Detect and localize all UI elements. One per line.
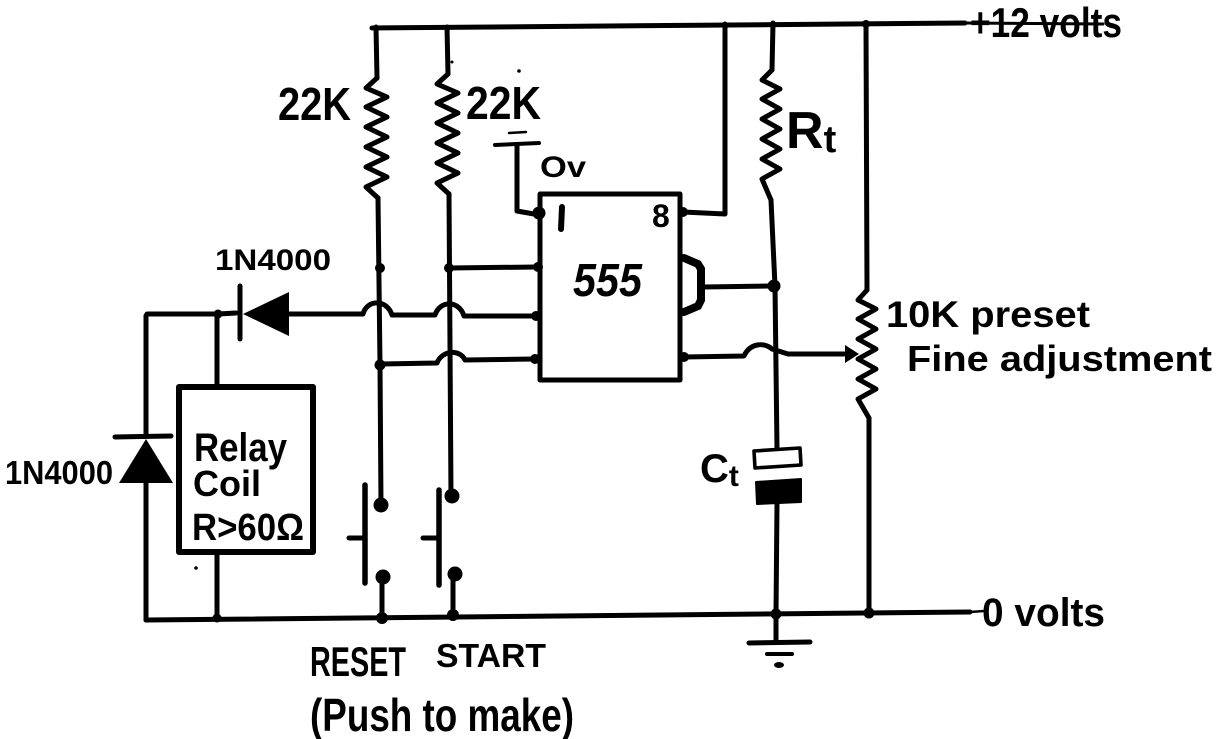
svg-text:Rt: Rt [786, 102, 837, 161]
svg-text:RESET: RESET [310, 638, 406, 685]
svg-text:+12 volts: +12 volts [970, 0, 1122, 46]
svg-text:START: START [436, 637, 546, 674]
svg-text:Ov: Ov [540, 151, 586, 184]
svg-text:10K preset: 10K preset [886, 294, 1090, 335]
svg-text:R>60Ω: R>60Ω [192, 507, 304, 549]
svg-text:1N4000: 1N4000 [215, 244, 331, 277]
svg-text:Fine adjustment: Fine adjustment [907, 338, 1212, 379]
svg-text:22K: 22K [278, 78, 351, 130]
svg-text:555: 555 [573, 254, 643, 306]
svg-text:1N4000: 1N4000 [5, 454, 113, 491]
svg-text:Ct: Ct [700, 447, 739, 493]
svg-text:0 volts: 0 volts [982, 591, 1105, 635]
svg-text:Coil: Coil [193, 463, 261, 504]
svg-text:(Push to make): (Push to make) [310, 689, 574, 739]
svg-text:22K: 22K [466, 77, 541, 129]
svg-text:8: 8 [652, 198, 670, 234]
